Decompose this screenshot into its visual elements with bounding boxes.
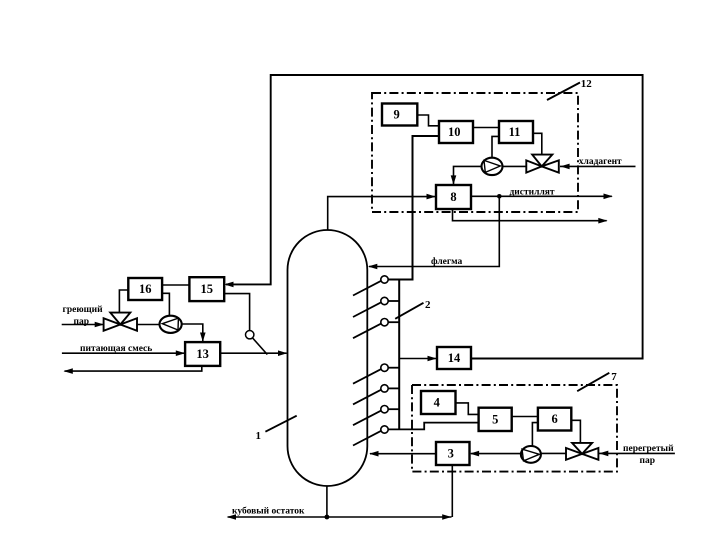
wire box8 bottom product out [453, 209, 607, 221]
wire valve V2 to pump P2 [137, 324, 160, 326]
switch circle [246, 331, 254, 339]
pump P2 [160, 316, 182, 333]
wire box4 to box5 [456, 403, 479, 415]
wire sensor manifold [398, 280, 400, 430]
arrowhead condensate [64, 368, 73, 374]
wire box16 to box15 [162, 284, 189, 286]
wire pump P1 top to box11 left [492, 136, 499, 157]
dash-dot enclosure 12 [372, 93, 578, 212]
wire stub sensor 3 [388, 321, 399, 323]
wire stub sensor 4 [388, 367, 399, 369]
arrowhead into valve V3 [599, 451, 608, 457]
arrowhead box8 bottom out [598, 218, 607, 224]
column 1 (distillation column) [288, 230, 368, 486]
wire pump P2 to heater 13 [182, 324, 203, 341]
tray nozzle diagonal 4 [353, 369, 381, 384]
tray nozzle circle 4 [381, 364, 388, 371]
arrowhead distillate [604, 194, 613, 200]
svg-text:2: 2 [425, 299, 431, 311]
wire feed in [62, 352, 184, 354]
arrowhead into box 3 right [470, 451, 479, 457]
tray nozzle diagonal 1 [353, 281, 381, 296]
pump P1 top [482, 158, 503, 175]
pump P3 [521, 446, 541, 463]
wire tray sensors to box10 [388, 136, 439, 280]
wire stub sensor 2 [388, 300, 399, 302]
wire superheated steam in [599, 452, 675, 454]
svg-text:питающая смесь: питающая смесь [80, 344, 152, 354]
arrowhead into box 13 top [200, 333, 206, 342]
arrowhead reflux into column [368, 264, 377, 270]
arrowhead into box 8 left [427, 194, 436, 200]
box 11 [499, 121, 533, 143]
box 9 [382, 104, 417, 126]
wire pump P1 to condenser 8 top [454, 166, 482, 184]
wire box6 right to valve V3 actuator [571, 420, 580, 443]
box 8 condenser [436, 185, 471, 209]
box 5 [479, 408, 512, 431]
wire feedback loop box14 to box15 [226, 75, 643, 359]
wire stub sensor 6 [388, 408, 399, 410]
wire manifold bottom to box 5 [388, 423, 479, 430]
tray nozzle circle 7 [381, 426, 388, 433]
arrowhead toward box3 riser [442, 514, 451, 520]
valve V1 top (three-way control valve) [526, 160, 541, 172]
box 13 heater [185, 342, 220, 366]
arrowhead into valve V2 [95, 322, 104, 328]
tray nozzle circle 6 [381, 406, 388, 413]
svg-text:3: 3 [448, 447, 454, 461]
wire pump P3 to box 3 [471, 453, 521, 455]
node dot distillate/reflux junction [497, 194, 502, 199]
svg-text:греющий: греющий [63, 304, 104, 315]
pointer line for label 1 [265, 416, 296, 432]
wire box11 right to valve V1 actuator [532, 133, 542, 154]
svg-text:15: 15 [201, 282, 214, 296]
svg-text:1: 1 [256, 430, 262, 442]
pointer line for label 12 [547, 83, 580, 101]
wire box3 to column [370, 453, 436, 455]
box 14 [437, 347, 471, 369]
svg-text:7: 7 [611, 371, 617, 383]
tray nozzle circle 1 [381, 276, 388, 283]
arrowhead into controller 15 [224, 282, 233, 288]
dash-dot enclosure 7 [412, 385, 617, 472]
wire box16 right to pump P2 [162, 293, 169, 316]
tray nozzle diagonal 2 [353, 302, 381, 317]
tray nozzle circle 5 [381, 385, 388, 392]
wire stub sensor 5 [388, 387, 399, 389]
wire box15 right to switch [224, 294, 249, 331]
svg-text:пар: пар [74, 317, 90, 327]
wire feed to column [220, 352, 286, 354]
box 10 [439, 121, 473, 143]
wire condensate out [65, 366, 202, 371]
svg-text:4: 4 [434, 396, 441, 410]
wire box16 left to valve V2 actuator [119, 290, 128, 313]
svg-text:дистиллят: дистиллят [510, 188, 555, 198]
box 16 [128, 278, 162, 300]
arrowhead into column bottom [369, 451, 378, 457]
box 3 reboiler [436, 442, 470, 465]
svg-text:14: 14 [448, 351, 461, 365]
valve V2 (steam control valve) [104, 318, 121, 331]
tray nozzle diagonal 5 [353, 390, 381, 405]
wire valve V1 to pump P1 [503, 165, 527, 167]
svg-text:хладагент: хладагент [579, 157, 622, 167]
arrowhead into valve V1 [560, 164, 569, 170]
wire bottoms line [228, 516, 452, 518]
pointer line for label 2 [395, 303, 423, 319]
wire box6 left to pump P3 [532, 423, 538, 446]
svg-text:11: 11 [509, 125, 521, 139]
wire coolant in (хладагент) [560, 165, 636, 167]
svg-text:8: 8 [450, 190, 456, 204]
node dot bottoms junction [325, 515, 330, 520]
svg-text:6: 6 [551, 412, 557, 426]
arrowhead into box 14 [428, 356, 437, 362]
tray nozzle circle 3 [381, 319, 388, 326]
wire box3 bottom sample line [451, 465, 453, 517]
svg-text:9: 9 [393, 108, 399, 122]
svg-text:перегретый: перегретый [623, 443, 674, 454]
box 6 [538, 408, 571, 431]
tray nozzle circle 2 [381, 297, 388, 304]
wire vapor line from column top to box 8 [328, 197, 435, 231]
svg-text:5: 5 [492, 413, 498, 427]
wire steam in [62, 324, 104, 326]
tray nozzle diagonal 6 [353, 410, 381, 425]
wire valve V3 to pump P3 [541, 452, 566, 454]
svg-text:13: 13 [196, 347, 209, 361]
wire column bottom outlet [326, 486, 328, 517]
wire manifold to box 14 [399, 358, 436, 360]
arrowhead into box 8 top [451, 175, 457, 184]
box 4 [421, 391, 456, 414]
tray nozzle diagonal 3 [353, 323, 381, 338]
svg-text:10: 10 [448, 125, 461, 139]
svg-text:флегма: флегма [431, 256, 462, 267]
pointer line for label 7 [577, 373, 609, 391]
valve V3 [566, 448, 582, 460]
svg-text:кубовый остаток: кубовый остаток [232, 506, 305, 517]
arrowhead into box 13 left [176, 350, 185, 356]
box 15 [189, 277, 224, 301]
switch lever diagonal [253, 338, 267, 354]
tray nozzle diagonal 7 [353, 431, 381, 446]
wire box5 to box6 [512, 416, 538, 418]
svg-text:пар: пар [640, 456, 656, 466]
wire box10 to box11 [473, 127, 499, 129]
svg-text:16: 16 [139, 282, 152, 296]
wire distillate out [471, 195, 612, 197]
wire reflux (флегма) [369, 196, 499, 266]
arrowhead bottoms out left [227, 514, 236, 520]
svg-text:12: 12 [581, 78, 593, 90]
arrowhead feed into column [278, 350, 287, 356]
wire box9 to box10 [417, 115, 439, 126]
